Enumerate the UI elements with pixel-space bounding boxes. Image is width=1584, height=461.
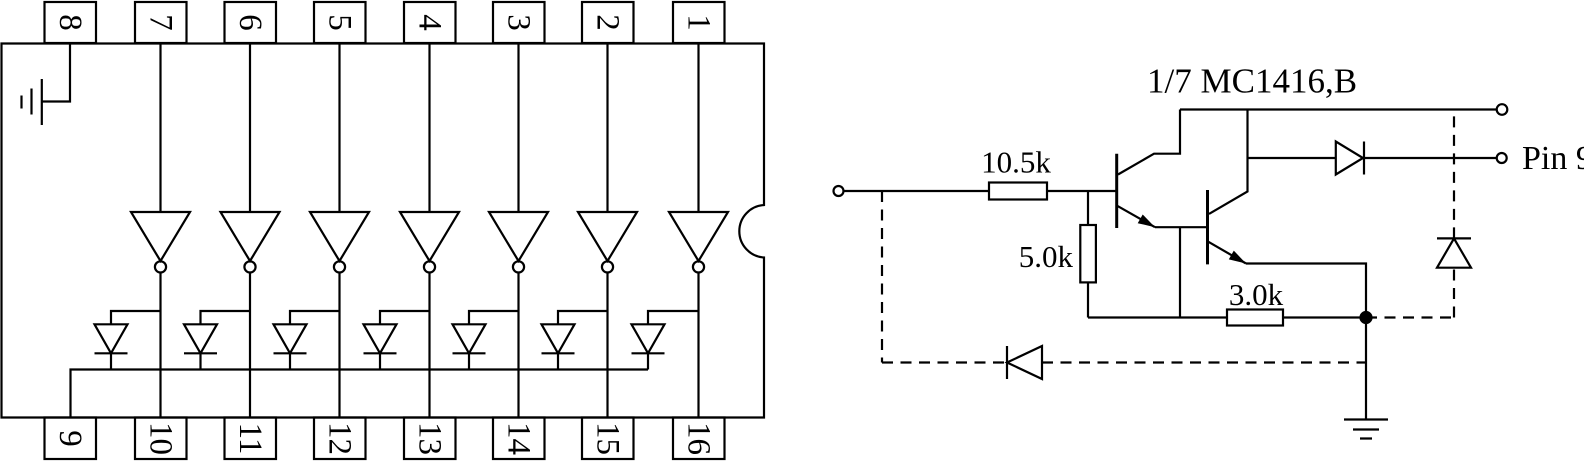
pin box 15 — [582, 418, 634, 460]
pin box 5 — [314, 2, 366, 43]
svg-text:14: 14 — [501, 422, 537, 455]
svg-text:10.5k: 10.5k — [981, 145, 1051, 180]
pin box 9 — [45, 418, 97, 460]
wire diode1 to bus — [647, 353, 649, 369]
wire A7 output to pin10 — [159, 273, 161, 419]
diode D2 — [542, 324, 575, 353]
transistor Q1 emitter — [1117, 206, 1155, 228]
pin box 12 — [314, 418, 366, 460]
svg-text:9: 9 — [52, 430, 88, 447]
bottom rail wire — [1088, 316, 1227, 318]
diode D1 — [632, 324, 665, 353]
diode D9 — [1007, 346, 1042, 379]
inverter A5 — [310, 212, 369, 261]
channel 2: wire pin2 to inverter — [606, 44, 608, 213]
wire diode5 to bus — [289, 353, 291, 369]
svg-text:12: 12 — [322, 422, 358, 455]
resistor R1 10.5k — [989, 183, 1047, 200]
pin box 4 — [404, 2, 456, 43]
svg-text:4: 4 — [412, 14, 448, 31]
input terminal circle — [834, 186, 844, 196]
wire diode3 tap — [469, 311, 519, 324]
wire input to R1 — [844, 190, 990, 192]
channel 7: wire pin7 to inverter — [159, 44, 161, 213]
inverter A3 — [489, 212, 548, 261]
channel 3: wire pin3 to inverter — [517, 44, 519, 213]
svg-text:16: 16 — [681, 422, 717, 455]
wire diode2 tap — [558, 311, 608, 324]
wire A1 output to pin16 — [697, 273, 699, 419]
dashed wire input down — [881, 191, 883, 363]
dashed wire bottom right — [1042, 361, 1366, 363]
top rail wire — [1180, 108, 1497, 110]
wire R2 to rail — [1087, 282, 1089, 317]
transistor Q2 base bar — [1206, 190, 1209, 264]
transistor Q1 emitter arrow — [1138, 215, 1155, 228]
wire A4 output to pin13 — [428, 273, 430, 419]
svg-text:15: 15 — [590, 422, 626, 455]
inverter A4 — [400, 212, 459, 261]
svg-text:13: 13 — [412, 422, 448, 455]
svg-text:8: 8 — [52, 14, 88, 31]
wire diode to Pin 9 — [1364, 157, 1497, 159]
wire node to ground — [1365, 318, 1367, 420]
diode D6 — [184, 324, 217, 353]
transistor Q1 collector — [1118, 110, 1180, 175]
svg-text:7: 7 — [143, 14, 179, 31]
ground — [1344, 420, 1388, 439]
wire Q1 base to R2 — [1087, 191, 1089, 225]
svg-text:3: 3 — [501, 14, 537, 31]
inverter A1 bubble — [693, 261, 704, 272]
inverter A2 — [578, 212, 637, 261]
diode D10 — [1437, 238, 1471, 267]
transistor Q2 emitter arrow — [1229, 251, 1246, 264]
inverter A6 bubble — [244, 261, 255, 272]
inverter A4 bubble — [424, 261, 435, 272]
diode D8 — [1336, 142, 1364, 175]
inverter A5 bubble — [334, 261, 345, 272]
wire diode5 tap — [290, 311, 340, 324]
svg-text:5.0k: 5.0k — [1019, 239, 1074, 274]
wire R1 to Q1 base — [1047, 190, 1116, 192]
wire diode7 to bus — [110, 353, 112, 369]
svg-text:Pin 9: Pin 9 — [1522, 140, 1584, 177]
resistor R3 3.0k — [1227, 310, 1283, 326]
svg-text:5: 5 — [322, 14, 358, 31]
resistor R2 5.0k — [1080, 225, 1096, 282]
pin box 2 — [582, 2, 634, 43]
svg-text:1: 1 — [681, 14, 717, 31]
inverter A1 — [669, 212, 728, 261]
wire diode2 to bus — [557, 353, 559, 369]
diode D7 — [95, 324, 128, 353]
dashed wire corner up — [1453, 268, 1455, 318]
IC package body — [2, 44, 765, 418]
inverter A7 bubble — [155, 261, 166, 272]
channel 4: wire pin4 to inverter — [428, 44, 430, 213]
inverter A2 bubble — [602, 261, 613, 272]
wire A6 output to pin11 — [249, 273, 251, 419]
pin box 3 — [493, 2, 545, 43]
pin box 7 — [135, 2, 187, 43]
transistor Q1 base bar — [1115, 154, 1118, 228]
wire diode6 to bus — [199, 353, 201, 369]
channel 6: wire pin6 to inverter — [249, 44, 251, 213]
channel 1: wire pin1 to inverter — [697, 44, 699, 213]
inverter A6 — [221, 212, 280, 261]
diode D5 — [274, 324, 307, 353]
svg-text:1/7 MC1416,B: 1/7 MC1416,B — [1147, 62, 1357, 101]
pin box 6 — [225, 2, 277, 43]
common diode bus to pin 9 — [71, 370, 649, 419]
wire collector to diode — [1248, 157, 1336, 159]
pin box 8 — [45, 2, 97, 43]
pin box 13 — [404, 418, 456, 460]
Pin 9 terminal circle — [1497, 153, 1507, 163]
pin box 10 — [135, 418, 187, 460]
svg-text:6: 6 — [232, 14, 268, 31]
wire diode4 tap — [380, 311, 430, 324]
wire Q2 base node down — [1179, 227, 1181, 317]
dashed wire node to corner — [1366, 316, 1454, 318]
wire pin8 to ground — [42, 44, 70, 102]
wire diode7 tap — [111, 311, 161, 324]
dashed wire bottom left — [882, 361, 1007, 363]
wire A3 output to pin14 — [517, 273, 519, 419]
svg-text:3.0k: 3.0k — [1229, 277, 1284, 312]
diode D3 — [453, 324, 486, 353]
wire A2 output to pin15 — [606, 273, 608, 419]
ground at pin 8 — [22, 79, 42, 125]
wire diode1 tap — [648, 311, 699, 324]
inverter A3 bubble — [513, 261, 524, 272]
wire Q1 emitter to Q2 base — [1155, 226, 1207, 228]
pin box 16 — [673, 418, 725, 460]
channel 5: wire pin5 to inverter — [338, 44, 340, 213]
svg-text:11: 11 — [232, 423, 268, 455]
svg-text:2: 2 — [590, 14, 626, 31]
transistor Q2 emitter — [1208, 242, 1246, 264]
wire A5 output to pin12 — [338, 273, 340, 419]
wire R3 to node — [1283, 316, 1366, 318]
dashed wire diode to top rail — [1453, 110, 1455, 239]
output terminal circle — [1497, 104, 1508, 115]
wire diode3 to bus — [468, 353, 470, 369]
junction node dot — [1361, 312, 1372, 323]
wire diode4 to bus — [379, 353, 381, 369]
wire Q2 emitter — [1246, 264, 1366, 318]
inverter A7 — [131, 212, 190, 261]
transistor Q2 collector — [1209, 110, 1248, 214]
pin box 11 — [225, 418, 277, 460]
wire diode6 tap — [201, 311, 251, 324]
pin box 1 — [673, 2, 725, 43]
diode D4 — [364, 324, 397, 353]
pin box 14 — [493, 418, 545, 460]
svg-text:10: 10 — [143, 422, 179, 455]
